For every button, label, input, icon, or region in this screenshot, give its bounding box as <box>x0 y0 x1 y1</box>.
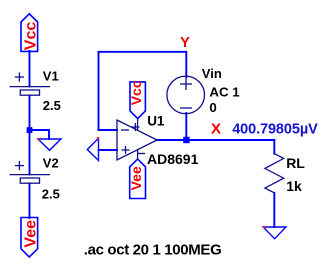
svg-text:Vee: Vee <box>23 220 40 248</box>
svg-text:AD8691: AD8691 <box>147 151 199 167</box>
svg-text:Vin: Vin <box>202 66 222 81</box>
svg-text:Vcc: Vcc <box>23 22 40 51</box>
svg-text:X: X <box>211 120 221 137</box>
svg-text:RL: RL <box>286 155 305 171</box>
svg-text:0: 0 <box>209 100 216 115</box>
svg-text:V1: V1 <box>43 68 59 83</box>
svg-text:2.5: 2.5 <box>43 98 61 113</box>
svg-text:400.79805µV: 400.79805µV <box>232 122 318 138</box>
svg-text:AC 1: AC 1 <box>209 85 240 100</box>
svg-text:Vcc: Vcc <box>128 80 144 105</box>
svg-text:1k: 1k <box>286 178 302 194</box>
svg-text:U1: U1 <box>147 114 165 129</box>
svg-text:.ac oct 20 1 100MEG: .ac oct 20 1 100MEG <box>84 242 222 259</box>
svg-text:V2: V2 <box>43 156 59 171</box>
svg-text:Y: Y <box>180 34 190 51</box>
svg-text:2.5: 2.5 <box>42 186 60 201</box>
svg-text:Vee: Vee <box>128 166 144 190</box>
